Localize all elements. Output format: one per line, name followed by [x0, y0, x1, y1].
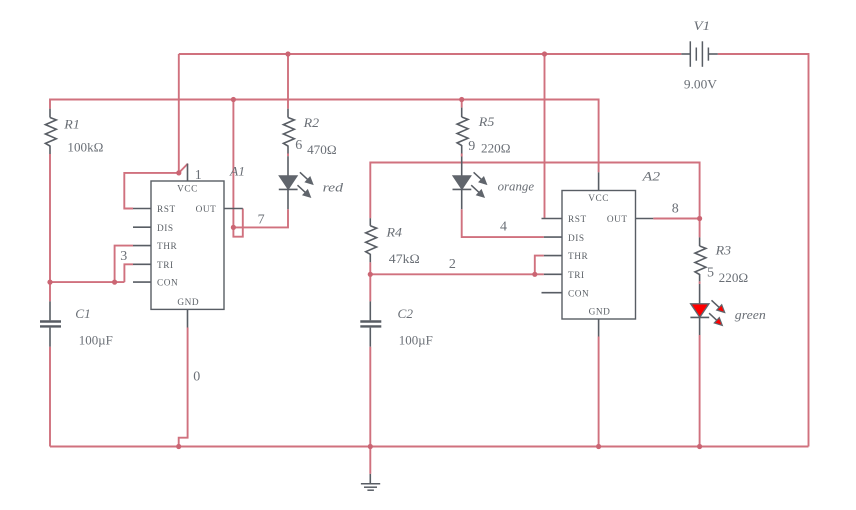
svg-text:R2: R2 — [303, 115, 320, 130]
svg-text:A1: A1 — [229, 164, 245, 179]
junction net7 rail / A1 OUT vertical — [231, 97, 236, 102]
junction bottom rail / A2 GND — [596, 444, 601, 449]
junction top rail / R2 — [285, 51, 290, 56]
wire A1 VCC drop net 1 — [178, 54, 180, 173]
wire A1 GND down jog net 0 — [179, 328, 188, 447]
LED red (D, with R2) — [279, 156, 313, 209]
resistor R2 — [283, 109, 294, 154]
wire orange LED to A2 DIS net 4 — [462, 209, 544, 237]
svg-text:0: 0 — [193, 369, 200, 384]
wire R5 branch top — [461, 100, 463, 108]
svg-text:A2: A2 — [641, 168, 660, 183]
LED green (lit, red fill) — [690, 284, 724, 335]
svg-text:2: 2 — [449, 257, 456, 272]
svg-text:CON: CON — [568, 289, 589, 299]
svg-text:DIS: DIS — [568, 234, 585, 244]
junction bottom rail / A1 GND — [176, 444, 181, 449]
wire top rail right segment and right edge down — [718, 54, 809, 447]
battery V1 — [681, 41, 718, 67]
op-amp U2 555 timer A2 — [542, 172, 654, 336]
svg-text:VCC: VCC — [177, 185, 198, 195]
junction bottom rail / C2 ground — [368, 444, 373, 449]
wire bottom ground rail net 0 — [50, 446, 809, 448]
wire net 7 rail with A2 VCC drop and R1 top — [50, 100, 599, 173]
op-amp U1 555 timer A1 — [133, 164, 243, 328]
capacitor C2 — [360, 301, 381, 346]
svg-text:470Ω: 470Ω — [307, 142, 337, 157]
wire A1 RST loop — [124, 173, 179, 209]
svg-text:220Ω: 220Ω — [481, 141, 511, 156]
svg-text:47kΩ: 47kΩ — [389, 251, 420, 266]
svg-text:OUT: OUT — [196, 205, 217, 215]
wire A2 OUT to net 8 — [653, 218, 699, 220]
wire A1 OUT vertical net 7 — [233, 100, 242, 237]
wire R3 to LED joint — [699, 281, 701, 284]
svg-text:3: 3 — [120, 249, 127, 264]
ground symbol — [361, 474, 380, 490]
svg-text:RST: RST — [568, 215, 587, 225]
svg-text:THR: THR — [157, 242, 177, 252]
junction net 7 loop — [231, 225, 236, 230]
svg-text:100kΩ: 100kΩ — [67, 139, 103, 154]
svg-text:7: 7 — [258, 213, 265, 228]
wire A2 THR jog — [535, 256, 544, 275]
svg-text:R4: R4 — [385, 225, 402, 240]
svg-text:DIS: DIS — [157, 224, 174, 234]
svg-text:1: 1 — [195, 168, 202, 183]
junction R4 / net 2 — [368, 272, 373, 277]
svg-text:TRI: TRI — [157, 261, 174, 271]
wire A2 RST drop from top rail — [544, 54, 546, 219]
wire A2 GND down — [598, 337, 600, 447]
junction A2 OUT / R3 net 8 — [697, 216, 702, 221]
wire R2 to LED joint — [287, 154, 289, 157]
wire R4 top to rail3 to A2 OUT and R3 — [370, 163, 699, 238]
resistor R4 — [366, 218, 377, 262]
wire R4 bottom to C2 — [369, 262, 371, 301]
wire R2 branch top — [287, 54, 289, 109]
resistor R1 — [45, 109, 56, 154]
junction A1 VCC corner net 1 — [176, 170, 181, 175]
svg-text:VCC: VCC — [588, 194, 609, 204]
junction A1 CON net / THR vertical — [112, 280, 117, 285]
svg-text:THR: THR — [568, 252, 588, 262]
wire R1 bottom to C1 — [49, 154, 51, 301]
svg-text:100µF: 100µF — [399, 333, 433, 348]
svg-text:OUT: OUT — [607, 215, 628, 225]
wire A1 VCC diagonal — [179, 164, 188, 173]
svg-text:9.00V: 9.00V — [684, 77, 718, 92]
label A1 pin names — [157, 185, 216, 308]
svg-text:GND: GND — [589, 307, 611, 317]
wire A1 CON-net horizontal net 3 — [50, 281, 124, 283]
wire C1 bottom to rail — [49, 347, 51, 447]
label A2 pin names — [568, 194, 628, 317]
svg-text:9: 9 — [468, 139, 475, 154]
svg-text:red: red — [323, 180, 344, 195]
svg-text:GND: GND — [177, 298, 199, 308]
junction R1-C1 / CON wire — [47, 280, 52, 285]
svg-text:C1: C1 — [75, 306, 91, 321]
wire C2 bottom to rail and ground — [369, 347, 371, 474]
resistor R3 — [695, 237, 706, 281]
wire net 2 horizontal to A2 TRI — [370, 273, 544, 275]
svg-text:8: 8 — [672, 201, 679, 216]
svg-text:RST: RST — [157, 205, 176, 215]
svg-text:R3: R3 — [715, 243, 732, 258]
wire green LED down to rail — [699, 335, 701, 447]
junction net7 rail / R5 branch — [459, 97, 464, 102]
svg-text:5: 5 — [707, 266, 714, 281]
svg-text:CON: CON — [157, 279, 178, 289]
svg-text:4: 4 — [500, 219, 507, 234]
wire red LED down to net 7 — [233, 209, 288, 227]
wire A1 TRI jog — [124, 264, 133, 282]
svg-text:V1: V1 — [694, 18, 711, 33]
svg-text:220Ω: 220Ω — [719, 270, 749, 285]
svg-text:orange: orange — [498, 179, 535, 194]
resistor R5 — [457, 108, 468, 154]
capacitor C1 — [40, 301, 61, 346]
svg-text:TRI: TRI — [568, 271, 585, 281]
wire A1 THR jog — [115, 246, 133, 283]
junction top rail / A2 RST — [542, 51, 547, 56]
junction bottom rail / green LED — [697, 444, 702, 449]
wire top VCC rail left segment — [179, 53, 682, 55]
svg-text:6: 6 — [295, 138, 302, 153]
svg-text:R1: R1 — [63, 116, 80, 131]
svg-text:100µF: 100µF — [79, 333, 113, 348]
junction A2 TRI / THR vertical — [532, 272, 537, 277]
LED orange (D, with R5) — [453, 157, 487, 210]
svg-text:green: green — [735, 307, 766, 322]
wire R5 to LED joint — [461, 154, 463, 157]
svg-text:C2: C2 — [398, 306, 414, 321]
svg-text:R5: R5 — [478, 114, 495, 129]
